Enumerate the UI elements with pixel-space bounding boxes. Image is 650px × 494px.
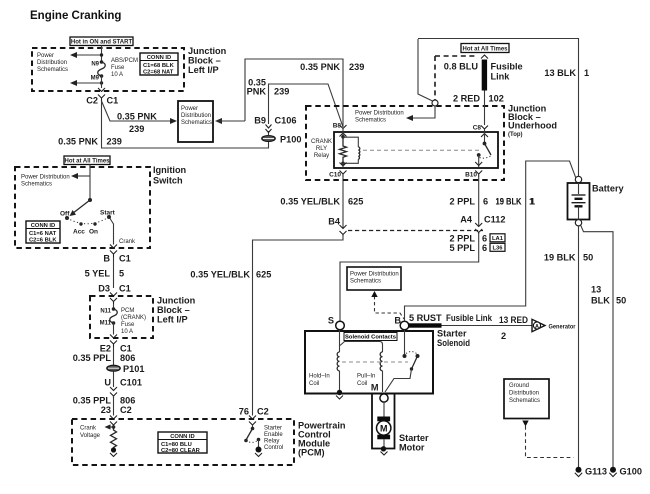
svg-text:ABS/PCM: ABS/PCM [111, 58, 138, 64]
svg-text:C1=6 NAT: C1=6 NAT [29, 231, 57, 237]
svg-text:Control: Control [264, 445, 283, 451]
svg-text:1: 1 [529, 197, 534, 207]
relay contact [475, 142, 491, 168]
svg-text:C1: C1 [119, 284, 131, 294]
svg-text:Schematics: Schematics [509, 398, 540, 404]
svg-text:806: 806 [120, 396, 135, 406]
svg-text:B: B [103, 254, 110, 264]
svg-text:19 BLK: 19 BLK [544, 253, 576, 263]
wire from tag into fuse N9 [101, 46, 103, 63]
svg-text:CONN ID: CONN ID [147, 55, 171, 61]
svg-text:Battery: Battery [592, 184, 625, 194]
svg-text:M: M [371, 383, 379, 393]
svg-text:C101: C101 [120, 378, 142, 388]
svg-text:2 PPL: 2 PPL [449, 234, 475, 244]
connector C112 dashed line [348, 230, 483, 232]
connector B/C1 marks [110, 245, 117, 258]
svg-text:(Top): (Top) [508, 132, 523, 138]
svg-text:Relay: Relay [314, 153, 329, 159]
connector B8 marks [340, 125, 347, 139]
pull-in coil [340, 342, 383, 393]
svg-text:N11: N11 [100, 309, 111, 315]
svg-text:C106: C106 [275, 116, 297, 126]
svg-text:P100: P100 [280, 135, 301, 145]
svg-text:239: 239 [274, 87, 289, 97]
svg-text:Block –: Block – [157, 305, 190, 315]
label Junction Block - Left I/P (second) [157, 296, 196, 325]
mechanical link dashes [363, 149, 481, 151]
svg-text:Schematics: Schematics [355, 118, 386, 124]
svg-text:CONN ID: CONN ID [170, 434, 194, 440]
svg-text:2 RED: 2 RED [453, 94, 480, 104]
svg-text:Coil: Coil [357, 381, 367, 387]
wire 13 BLK 50 (to G100) [581, 225, 627, 467]
starter solenoid box [305, 331, 433, 394]
wire 2 PPL to S terminal [340, 234, 479, 321]
resistor (crank voltage) [111, 428, 117, 449]
connector C2/C1 marks [98, 88, 105, 101]
connector 76 marks [249, 416, 256, 426]
svg-text:Junction: Junction [188, 46, 227, 56]
svg-text:Fuse: Fuse [111, 65, 125, 71]
svg-text:2: 2 [501, 331, 506, 341]
svg-text:C2=6 BLK: C2=6 BLK [29, 238, 57, 244]
ground (hold-in coil) [336, 390, 343, 399]
svg-text:806: 806 [120, 353, 135, 363]
svg-text:LA1: LA1 [492, 236, 504, 242]
svg-text:U: U [104, 378, 111, 388]
svg-text:5 YEL: 5 YEL [85, 269, 111, 279]
wire 0.35 PNK 239 down from C2 to P100 [58, 101, 268, 148]
wire 239 from C106 up and to relay B8 [269, 84, 344, 127]
svg-text:1: 1 [584, 68, 589, 78]
svg-text:Schematics: Schematics [181, 120, 212, 126]
svg-text:Left I/P: Left I/P [157, 315, 188, 325]
svg-text:Solenoid Contacts: Solenoid Contacts [345, 335, 396, 341]
wire Crank output [110, 219, 136, 246]
svg-text:Power Distribution: Power Distribution [355, 111, 404, 117]
wire to box bottom [113, 323, 115, 335]
svg-text:C2=80 CLEAR: C2=80 CLEAR [161, 448, 201, 454]
connector C10 marks [340, 163, 347, 178]
svg-text:0.35 PPL: 0.35 PPL [73, 353, 112, 363]
svg-text:Schematics: Schematics [37, 67, 68, 73]
svg-text:13: 13 [591, 285, 601, 295]
connector 23 marks [110, 416, 117, 426]
svg-text:239: 239 [107, 137, 122, 147]
fuse ABS/PCM 10A [98, 53, 106, 84]
svg-text:Fusible: Fusible [491, 62, 523, 72]
svg-text:Distribution: Distribution [509, 391, 539, 397]
svg-text:Ignition: Ignition [153, 165, 187, 175]
svg-text:0.35 PPL: 0.35 PPL [73, 396, 112, 406]
node D3/C1 [98, 284, 131, 294]
svg-text:Junction: Junction [157, 296, 196, 306]
ground (starter motor) [381, 446, 388, 455]
node 23/C2 [101, 405, 132, 415]
fuse PCM (CRANK) 10A [110, 307, 118, 325]
svg-text:Hot in ON and START: Hot in ON and START [71, 40, 133, 46]
svg-text:C2=68 NAT: C2=68 NAT [143, 70, 174, 76]
svg-text:6: 6 [482, 234, 487, 244]
connector C8 marks [481, 126, 488, 143]
svg-text:C112: C112 [484, 215, 505, 225]
mechanical link dashes (solenoid) [342, 361, 408, 363]
svg-text:Voltage: Voltage [80, 433, 101, 439]
svg-text:0.35 PNK: 0.35 PNK [117, 112, 157, 122]
wire 2 PPL 6 / 19 BLK 1 labels row [449, 177, 535, 226]
svg-text:BLK: BLK [591, 296, 610, 306]
tag Hot in ON and START [70, 37, 133, 46]
svg-text:Fusible Link: Fusible Link [446, 313, 493, 323]
svg-text:Off: Off [60, 211, 70, 218]
svg-text:625: 625 [256, 270, 271, 280]
wire 239 top run with reference arrow into PD box [215, 59, 364, 127]
svg-text:10 A: 10 A [121, 329, 133, 335]
svg-text:Left I/P: Left I/P [188, 65, 219, 75]
node 76/C2 [239, 407, 269, 417]
svg-text:50: 50 [583, 253, 593, 263]
svg-text:Crank: Crank [119, 239, 136, 245]
svg-text:19 BLK: 19 BLK [496, 197, 522, 207]
svg-text:B4: B4 [328, 217, 341, 227]
svg-text:S: S [328, 316, 334, 326]
svg-text:5 PPL: 5 PPL [449, 243, 475, 253]
svg-text:C1: C1 [107, 96, 119, 106]
svg-text:Hold–In: Hold–In [309, 374, 330, 380]
wire 2 RED 102 [453, 91, 504, 126]
svg-text:G100: G100 [620, 467, 642, 477]
dashed reference to grounds [522, 421, 573, 458]
svg-text:Coil: Coil [309, 381, 319, 387]
wire 13 BLK 1 (battery feed top) [418, 39, 589, 177]
svg-text:G113: G113 [585, 467, 607, 477]
connector D3 marks [110, 293, 117, 305]
conn id box C1=68 BLK C2=68 NAT [140, 53, 178, 76]
arrow to Power Distribution Schematics (ignition) [21, 173, 90, 188]
svg-text:D3: D3 [98, 284, 110, 294]
motor symbol [377, 402, 391, 447]
svg-text:On: On [89, 229, 98, 236]
junction block left I/P (top) dashed box [32, 48, 184, 91]
tag Solenoid Contacts [344, 333, 397, 341]
wire 13 RED 2 to generator [442, 315, 533, 341]
svg-text:Enable: Enable [264, 432, 283, 438]
switch arc [67, 217, 109, 224]
svg-text:13 BLK: 13 BLK [544, 68, 576, 78]
svg-text:2 PPL: 2 PPL [449, 197, 475, 207]
arrow to Power Distribution Schematics (underhood) [355, 106, 435, 124]
PCM dashed box [72, 419, 294, 465]
svg-text:Hot at All Times: Hot at All Times [64, 159, 110, 165]
switch starter enable relay control [244, 425, 283, 457]
wire 0.35 PNK 239 to power distribution (diagonal) [102, 101, 178, 134]
svg-text:Pull–In: Pull–In [357, 374, 375, 380]
starter motor enclosure [372, 394, 395, 449]
note Power Distribution Schematics (in junction block) [37, 53, 68, 73]
node crank voltage sense [80, 424, 115, 439]
node U/C101 [104, 378, 142, 388]
svg-text:Starter: Starter [264, 426, 282, 432]
svg-text:Acc: Acc [73, 229, 85, 236]
svg-text:239: 239 [129, 124, 144, 134]
dashed reference from B to PD box [371, 291, 404, 319]
svg-text:Engine Cranking: Engine Cranking [30, 10, 121, 22]
svg-text:Distribution: Distribution [181, 113, 211, 119]
svg-text:P101: P101 [123, 364, 144, 374]
svg-text:N9: N9 [91, 62, 99, 68]
svg-text:Hot at All Times: Hot at All Times [462, 46, 508, 52]
svg-text:L36: L36 [493, 246, 504, 252]
wire to border [101, 83, 103, 88]
svg-text:C1: C1 [120, 344, 132, 354]
svg-text:Starter: Starter [399, 433, 429, 443]
svg-text:Schematics: Schematics [350, 279, 381, 285]
svg-text:RLY: RLY [316, 146, 327, 152]
svg-text:0.35 YEL/BLK: 0.35 YEL/BLK [280, 197, 340, 207]
relay CRANK RLY box [334, 132, 498, 168]
wire 5 PPL 6 L36 row [449, 243, 505, 253]
svg-text:Switch: Switch [153, 176, 183, 186]
svg-text:Power Distribution: Power Distribution [21, 175, 70, 181]
ground distribution schematics box [504, 379, 549, 419]
wire runner 625 down to PCM [190, 236, 343, 416]
grommet P100 [262, 135, 302, 145]
svg-text:CRANK: CRANK [311, 139, 332, 145]
svg-text:E2: E2 [100, 344, 111, 354]
relay coil (resistor + inductor) [340, 135, 360, 165]
value ABS/PCM Fuse 10 A [111, 58, 138, 78]
connector A4 marks [475, 223, 482, 234]
svg-text:5: 5 [119, 269, 124, 279]
svg-text:Motor: Motor [399, 443, 425, 453]
svg-text:23: 23 [101, 405, 111, 415]
svg-text:625: 625 [348, 197, 363, 207]
svg-text:10 A: 10 A [111, 72, 123, 78]
tag Hot at All Times (fusible link) [435, 44, 509, 107]
label Junction Block - Underhood (Top) [508, 104, 557, 139]
svg-text:Solenoid: Solenoid [437, 338, 470, 348]
node A4/C112 [460, 215, 505, 225]
junction block left I/P (second) dashed box [90, 296, 153, 338]
label Junction Block - Left I/P [188, 46, 227, 75]
label CRANK RLY Relay [311, 139, 332, 159]
svg-text:A4: A4 [460, 215, 473, 225]
svg-text:Crank: Crank [80, 426, 97, 432]
svg-text:C2: C2 [257, 407, 269, 417]
ignition switch wiper [70, 198, 93, 216]
svg-text:PNK: PNK [247, 87, 267, 97]
svg-text:Block –: Block – [188, 56, 221, 66]
label Ignition Switch [153, 165, 187, 186]
svg-text:102: 102 [489, 94, 504, 104]
svg-text:Link: Link [491, 72, 511, 82]
splice to battery feed [418, 39, 438, 106]
conn id box C1=6 NAT C2=6 BLK [26, 221, 60, 244]
connector B4 marks [340, 225, 347, 236]
svg-text:C2: C2 [86, 96, 98, 106]
svg-text:CONN ID: CONN ID [31, 223, 55, 229]
label Starter Solenoid [437, 329, 470, 348]
label Starter Motor [399, 433, 429, 453]
wire 19 BLK 1 (battery positive cable to B) [405, 161, 576, 321]
svg-text:Power: Power [181, 106, 198, 112]
svg-text:50: 50 [616, 296, 626, 306]
svg-text:Power Distribution: Power Distribution [350, 272, 399, 278]
node E2/C1 [100, 344, 132, 354]
svg-text:(CRANK): (CRANK) [121, 315, 146, 321]
ignition switch dashed box [15, 167, 150, 248]
svg-text:Ground: Ground [509, 383, 529, 389]
ground G113 [575, 467, 607, 477]
svg-text:C2: C2 [120, 405, 132, 415]
wire 5 YEL 5 [85, 257, 125, 288]
contact On [89, 222, 98, 235]
label Powertrain Control Module (PCM) [298, 421, 346, 458]
terminal B [394, 316, 408, 330]
power distribution schematics box (solid, top left) [178, 101, 213, 142]
generator symbol [532, 319, 576, 331]
conn id box C1=80 BLU C2=80 CLEAR [158, 432, 207, 454]
connector B9/C106 marks [266, 125, 272, 136]
fusible link 5 RUST [409, 313, 493, 328]
svg-text:Generator: Generator [549, 323, 576, 330]
wire into fuse [113, 304, 115, 309]
svg-text:B10: B10 [465, 172, 477, 179]
terminal S [328, 316, 344, 330]
contact Start [100, 210, 116, 220]
svg-text:Underhood: Underhood [508, 121, 557, 131]
wire 0.35 PPL 806 (lower) [73, 396, 136, 416]
svg-text:M9: M9 [91, 76, 100, 82]
fusible link 0.8 BLU [444, 55, 523, 91]
svg-text:Schematics: Schematics [21, 182, 52, 188]
wire from hot tag into switch [89, 165, 91, 201]
svg-text:6: 6 [482, 243, 487, 253]
svg-text:PCM: PCM [121, 308, 134, 314]
svg-text:A: A [535, 324, 539, 330]
svg-text:239: 239 [349, 62, 364, 72]
grommet P101 [107, 364, 145, 374]
svg-text:0.8 BLU: 0.8 BLU [444, 62, 479, 72]
hold-in coil [309, 330, 340, 390]
svg-text:C1: C1 [119, 254, 131, 264]
svg-text:0.35 YEL/BLK: 0.35 YEL/BLK [190, 270, 250, 280]
svg-text:C10: C10 [329, 172, 341, 179]
svg-text:C1=68 BLK: C1=68 BLK [143, 63, 175, 69]
ground G100 [609, 467, 642, 477]
value PCM (CRANK) Fuse 10 A [121, 308, 146, 335]
power distribution schematics box (solenoid area) [347, 267, 401, 290]
svg-text:Start: Start [100, 210, 116, 217]
svg-text:0.35 PNK: 0.35 PNK [300, 62, 340, 72]
svg-text:0.35 PNK: 0.35 PNK [58, 137, 98, 147]
svg-text:C8: C8 [473, 125, 482, 132]
svg-text:B9: B9 [254, 116, 266, 126]
arrow to Power Distribution Schematics (upper) [70, 52, 102, 58]
svg-text:76: 76 [239, 407, 249, 417]
wire 0.35 YEL/BLK 625 (relay C10 to PCM 76) [280, 177, 363, 228]
svg-text:Distribution: Distribution [37, 60, 67, 66]
contact Off [60, 211, 70, 221]
connector E2 marks [110, 335, 117, 348]
battery [568, 176, 625, 226]
tag Hot at All Times (ignition) [64, 156, 110, 165]
svg-text:6: 6 [483, 197, 488, 207]
wire 19 BLK 50 (battery to G113) [544, 226, 593, 467]
connector B10 marks [475, 171, 482, 178]
svg-text:13 RED: 13 RED [499, 315, 528, 325]
svg-text:Power: Power [37, 53, 54, 59]
wire 0.35 PPL 806 (upper) [73, 347, 136, 365]
wire 2 PPL 6 LA1 row [449, 234, 505, 244]
svg-text:(PCM): (PCM) [298, 448, 325, 458]
svg-text:5 RUST: 5 RUST [409, 313, 442, 323]
terminal M [371, 383, 388, 403]
svg-text:Relay: Relay [264, 439, 279, 445]
arrow to Power Distribution Schematics (lower) [70, 76, 102, 86]
ground (PCM internal) [110, 447, 117, 456]
svg-text:Fuse: Fuse [121, 322, 135, 328]
solenoid contact blade [385, 330, 420, 392]
junction block underhood dashed box [306, 106, 504, 180]
svg-text:M11: M11 [100, 321, 112, 327]
contact Acc [73, 222, 85, 235]
svg-text:M: M [380, 423, 388, 433]
connector C101 marks [110, 372, 117, 399]
